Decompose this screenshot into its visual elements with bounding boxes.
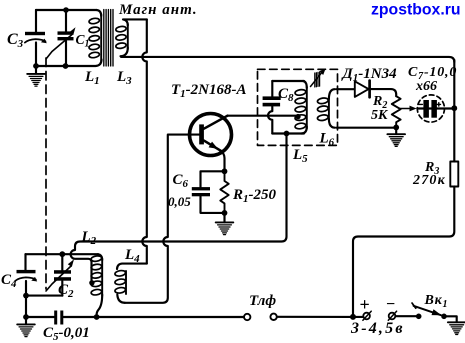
svg-text:L1: L1 xyxy=(84,69,100,87)
inductor L2 xyxy=(91,254,102,317)
svg-text:Магн ант.: Магн ант. xyxy=(118,2,198,18)
svg-text:C6: C6 xyxy=(173,172,189,190)
wire phones to battery xyxy=(277,316,353,318)
wire tank top rail C8-L5 xyxy=(272,80,304,82)
diode D1 1N34 xyxy=(355,81,370,98)
wire collector to L5 tap xyxy=(228,115,298,117)
node: junction dot C4 bottom xyxy=(23,293,29,299)
svg-text:L6: L6 xyxy=(319,131,335,149)
svg-text:х66: х66 xyxy=(415,79,437,94)
inductor L6 xyxy=(317,89,335,128)
svg-text:Т1-2N168-А: Т1-2N168-А xyxy=(171,82,247,100)
wire bottom tank top rail xyxy=(26,253,99,255)
ground (switch) xyxy=(448,322,465,334)
node: junction dot C1 bottom xyxy=(63,63,69,69)
node: emitter junction dot xyxy=(222,168,228,174)
node: junction dot C3 bottom xyxy=(33,63,39,69)
battery plus terminal xyxy=(353,316,363,318)
node: junction dot C7 right xyxy=(451,105,457,111)
inductor L4 xyxy=(115,264,147,303)
svg-text:3-4,5в: 3-4,5в xyxy=(350,320,405,337)
wire R3 bottom to battery plus xyxy=(353,187,454,318)
svg-text:C2: C2 xyxy=(58,282,74,300)
ferrite core rod xyxy=(104,10,113,67)
node: junction dot battery plus xyxy=(350,314,356,320)
svg-text:+: + xyxy=(360,295,370,315)
wire C4 bottom rail xyxy=(26,295,62,297)
resistor R1 xyxy=(220,171,228,213)
svg-text:270к: 270к xyxy=(412,173,446,188)
ground (under C3) xyxy=(35,66,37,74)
svg-text:C3: C3 xyxy=(7,31,24,50)
svg-text:Д1-1N34: Д1-1N34 xyxy=(341,66,398,84)
capacitor C6 xyxy=(192,171,225,213)
wire L6 bottom rail to R2 bottom xyxy=(337,127,397,129)
wiper arrow of R2 xyxy=(400,108,411,110)
inductor L1 xyxy=(89,10,102,61)
node: junction dot L2 bottom xyxy=(94,314,100,320)
capacitor C1 (variable) xyxy=(46,10,75,66)
wire top tank top rail xyxy=(36,9,97,11)
wire W1: L5 bottom to L2 tap xyxy=(71,134,287,281)
node: L2 tap dot xyxy=(89,280,94,285)
svg-text:L4: L4 xyxy=(124,247,140,265)
headphones jack terminals xyxy=(244,314,250,320)
node: R1 bottom junction dot xyxy=(222,210,228,216)
wire down to ground/bottom rail xyxy=(25,296,27,317)
svg-text:Вк1: Вк1 xyxy=(424,293,449,310)
wire minus to switch xyxy=(396,315,416,317)
adjustable core arrow xyxy=(311,68,326,87)
capacitor C2 (variable) xyxy=(46,254,74,296)
inductor L3 xyxy=(115,19,146,56)
svg-text:C8: C8 xyxy=(278,86,294,104)
wire L6 top to diode xyxy=(337,88,356,90)
svg-text:−: − xyxy=(386,296,395,313)
node: junction dot bottom-left xyxy=(23,314,29,320)
wire diode to R2 xyxy=(370,89,397,96)
gang dashed link C1-C2 xyxy=(45,58,47,289)
ground (under R1) xyxy=(223,213,225,222)
svg-text:zpostbox.ru: zpostbox.ru xyxy=(371,2,461,19)
capacitor C8 xyxy=(263,81,281,134)
svg-text:Тлф: Тлф xyxy=(249,293,276,309)
svg-text:L3: L3 xyxy=(116,69,132,87)
capacitor C7 electrolytic xyxy=(417,95,454,122)
wire right rail down to C7 node and R3 xyxy=(453,60,455,162)
ground (under R2) xyxy=(395,127,397,134)
wire top tank bottom rail xyxy=(36,60,102,67)
transformer dashed box xyxy=(258,69,338,145)
svg-text:C5-0,01: C5-0,01 xyxy=(43,325,90,343)
wire tank bottom rail xyxy=(272,132,304,134)
capacitor C5 xyxy=(54,311,96,325)
wire bottom rail to phones xyxy=(97,316,244,318)
capacitor C3 xyxy=(25,10,47,66)
svg-text:5К: 5К xyxy=(371,108,389,123)
node: junction dot L5 bottom stem xyxy=(284,131,290,137)
svg-text:C1: C1 xyxy=(76,32,90,50)
switch Vk1 xyxy=(416,314,422,320)
svg-text:0,05: 0,05 xyxy=(168,194,191,209)
svg-text:C4: C4 xyxy=(1,272,17,290)
wire L3 bottom to right rail xyxy=(121,57,454,62)
resistor R2 (volume pot) xyxy=(392,96,401,127)
wire switch to ground xyxy=(444,316,457,322)
svg-text:L5: L5 xyxy=(292,147,308,165)
inductor L5 xyxy=(295,81,307,134)
wire bottom rail left segment xyxy=(26,316,54,318)
resistor R3 xyxy=(450,162,458,187)
node top: junction dot C1 top xyxy=(63,7,69,13)
battery minus terminal xyxy=(389,313,396,320)
capacitor C4 xyxy=(15,254,37,295)
wire base to L4 bottom (vertical with hop) xyxy=(125,135,200,303)
svg-text:L2: L2 xyxy=(81,229,97,247)
wire vertical L3 top to L4 top with hops xyxy=(142,19,147,263)
node: junction dot R2 bottom xyxy=(393,125,399,131)
node: junction dot C2 top xyxy=(59,251,65,257)
ground (bottom left) xyxy=(25,317,27,324)
node: L5 tap dot xyxy=(295,114,300,119)
transistor Q1 2N168A xyxy=(190,114,232,172)
svg-text:R1-250: R1-250 xyxy=(232,187,277,205)
